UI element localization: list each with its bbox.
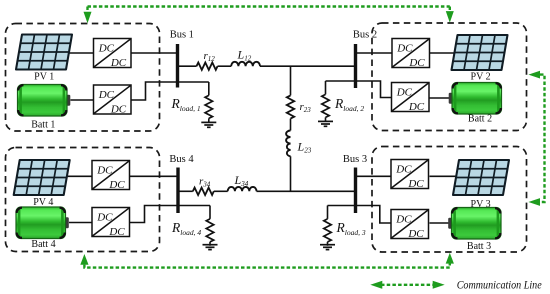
- svg-text:Rload, 3: Rload, 3: [336, 220, 366, 237]
- svg-text:PV 3: PV 3: [471, 199, 491, 210]
- svg-text:r12: r12: [204, 50, 216, 63]
- svg-text:Communication Line: Communication Line: [457, 280, 542, 292]
- svg-text:Bus 2: Bus 2: [353, 30, 377, 41]
- svg-text:Batt 2: Batt 2: [468, 114, 492, 125]
- svg-text:L12: L12: [237, 48, 252, 63]
- svg-text:Bus 1: Bus 1: [170, 30, 194, 41]
- svg-text:L23: L23: [297, 140, 312, 155]
- svg-text:Batt 1: Batt 1: [31, 120, 55, 131]
- svg-text:Bus 4: Bus 4: [169, 154, 194, 165]
- svg-text:L34: L34: [234, 173, 249, 188]
- svg-text:Batt 4: Batt 4: [31, 239, 55, 250]
- svg-text:Bus 3: Bus 3: [343, 154, 367, 165]
- svg-text:r34: r34: [199, 176, 211, 189]
- svg-text:PV 4: PV 4: [33, 197, 53, 208]
- svg-text:r23: r23: [300, 101, 312, 114]
- svg-text:PV 1: PV 1: [34, 71, 54, 82]
- svg-text:Rload, 4: Rload, 4: [171, 220, 201, 237]
- svg-text:Rload, 2: Rload, 2: [334, 96, 364, 113]
- svg-text:PV 2: PV 2: [471, 71, 491, 82]
- svg-text:Batt 3: Batt 3: [467, 241, 491, 252]
- svg-text:Rload, 1: Rload, 1: [171, 96, 201, 113]
